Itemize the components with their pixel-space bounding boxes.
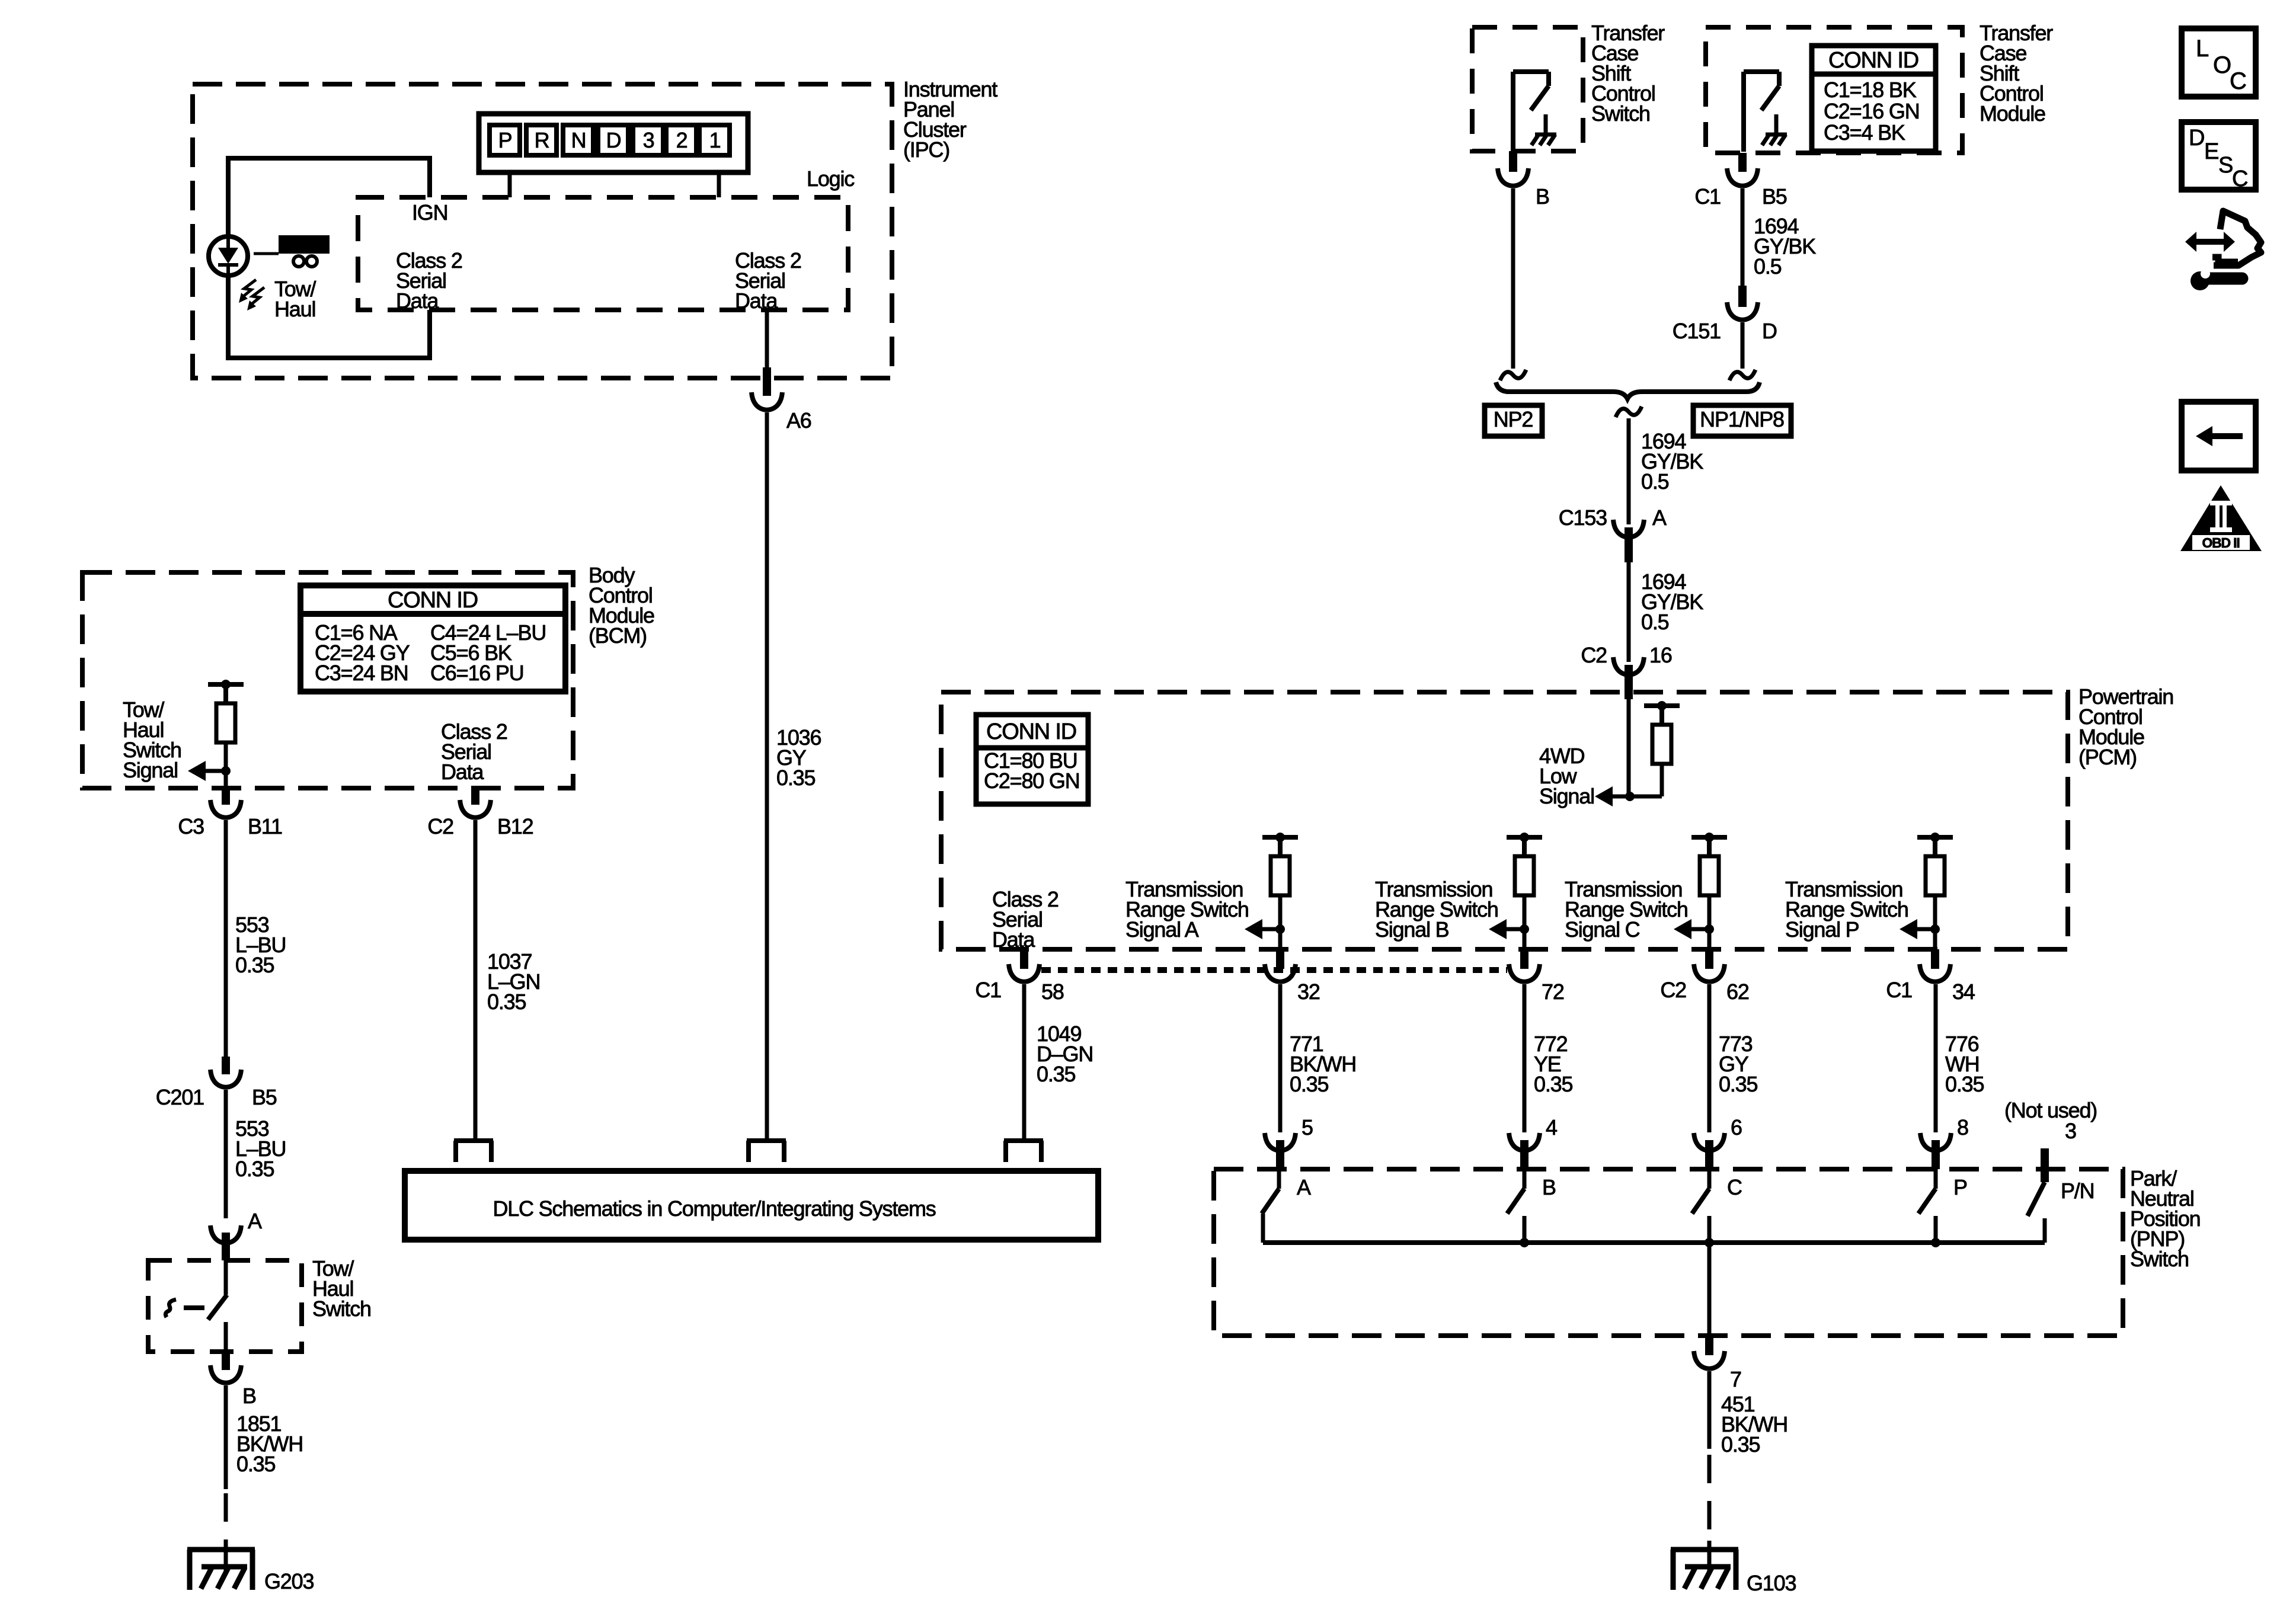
wire: LED anode loop to IGN <box>228 158 430 236</box>
svg-text:7: 7 <box>1730 1367 1741 1391</box>
connector B (TC switch) <box>1498 168 1528 186</box>
label: A (C153) <box>1652 505 1667 530</box>
icon: OBD II triangle <box>2180 485 2262 551</box>
label: C1 (34) <box>1886 978 1912 1002</box>
label: C153 <box>1559 505 1607 530</box>
wire: brace to C153 <box>1616 406 1642 524</box>
svg-text:C: C <box>1727 1175 1742 1199</box>
svg-text:0.35: 0.35 <box>1534 1072 1572 1096</box>
label: C1 (58) <box>975 978 1001 1002</box>
connector A6 <box>752 392 782 410</box>
label: Class 2 Serial Data (IPC right) <box>735 248 801 313</box>
connector PCM pin 72 <box>1509 949 1540 982</box>
wire 776 (to PNP pin 8) <box>1934 984 1938 1132</box>
svg-text:3: 3 <box>2065 1119 2076 1143</box>
label: (Not used) 3 <box>2004 1098 2097 1143</box>
wire: dashed to G203 <box>224 1493 228 1550</box>
svg-text:0.35: 0.35 <box>487 990 526 1014</box>
svg-text:O: O <box>2213 52 2231 78</box>
svg-text:OBD II: OBD II <box>2202 535 2239 550</box>
svg-text:B: B <box>1542 1175 1556 1199</box>
svg-text:4: 4 <box>1546 1115 1557 1140</box>
svg-text:0.35: 0.35 <box>235 1157 274 1181</box>
svg-text:2: 2 <box>676 128 687 152</box>
label: pin 6 <box>1731 1115 1742 1140</box>
CONN ID table (BCM) <box>300 585 565 692</box>
label: C (PNP) <box>1727 1175 1742 1199</box>
svg-text:0.35: 0.35 <box>1719 1072 1757 1096</box>
label: IGN <box>412 200 447 225</box>
wire: PNP common to pin 7 <box>1707 1243 1712 1355</box>
svg-text:C: C <box>2232 167 2247 191</box>
svg-text:B11: B11 <box>248 814 282 838</box>
bus: PNP common <box>1263 1238 2045 1247</box>
svg-text:5: 5 <box>1302 1115 1313 1140</box>
svg-text:Signal A: Signal A <box>1125 917 1199 942</box>
svg-text:CONN ID: CONN ID <box>986 719 1076 744</box>
component box: Transfer Case Shift Control Switch <box>1472 27 1583 151</box>
connector C201/B5 <box>210 1057 241 1087</box>
connector PNP pin 4 <box>1509 1133 1540 1169</box>
svg-text:Switch: Switch <box>312 1297 371 1321</box>
signal arrow: Transmission Range Switch Signal P <box>1900 919 1940 939</box>
connector C151/D <box>1727 286 1758 320</box>
connector PCM pin 34 <box>1920 949 1950 982</box>
svg-text:C153: C153 <box>1559 505 1607 530</box>
CONN ID table (PCM) <box>976 715 1088 804</box>
resistor: transmission range switch signal A pull-up <box>1262 833 1298 929</box>
label: 4WD Low Signal <box>1539 744 1594 808</box>
label: wire 1694 GY/BK 0.5 (3) <box>1641 569 1703 634</box>
connector A (tow/haul switch) <box>210 1225 241 1260</box>
svg-text:C1: C1 <box>1886 978 1912 1002</box>
switch: transfer case shift control switch <box>1513 72 1556 152</box>
PRND321 shift indicator <box>479 114 748 172</box>
svg-text:Module: Module <box>1980 101 2045 126</box>
wire: B to brace <box>1500 188 1526 380</box>
label: G203 <box>264 1569 314 1593</box>
svg-text:P/N: P/N <box>2061 1179 2094 1203</box>
label: D (C151) <box>1762 319 1777 343</box>
svg-text:Data: Data <box>735 289 778 313</box>
label: pin 34 <box>1952 980 1975 1004</box>
label: wire 776 <box>1945 1032 1984 1096</box>
connector B (tow/haul switch) <box>210 1365 241 1383</box>
svg-text:D: D <box>606 128 621 152</box>
wire: PNP pin 3 stub <box>2041 1148 2049 1182</box>
wire: PRND321 left pin <box>508 172 512 197</box>
svg-text:0.5: 0.5 <box>1754 254 1782 279</box>
svg-text:Signal C: Signal C <box>1565 917 1640 942</box>
resistor: tow/haul switch signal pull-up <box>208 680 244 771</box>
connector C153/A <box>1613 520 1644 562</box>
wire 1036 (A6 to DLC) <box>765 412 769 1141</box>
label: pin 4 <box>1546 1115 1557 1140</box>
svg-text:C2: C2 <box>1660 978 1686 1002</box>
connector PNP pin 5 <box>1265 1133 1296 1169</box>
svg-text:0.5: 0.5 <box>1641 469 1669 494</box>
svg-text:58: 58 <box>1041 980 1064 1004</box>
svg-text:8: 8 <box>1957 1115 1968 1140</box>
LED indicator: Tow/Haul lamp <box>209 236 264 311</box>
label: 16 <box>1649 643 1672 667</box>
svg-text:C1=18 BK: C1=18 BK <box>1824 78 1917 102</box>
wire 1037 (B12 to DLC) <box>474 820 478 1141</box>
svg-text:(BCM): (BCM) <box>589 623 647 648</box>
svg-text:16: 16 <box>1649 643 1672 667</box>
svg-text:A: A <box>1297 1175 1311 1199</box>
connector hat: DLC pin (1037) <box>454 1141 493 1162</box>
svg-text:Switch: Switch <box>1591 101 1650 126</box>
svg-text:Logic: Logic <box>807 167 855 191</box>
label: B (TC switch) <box>1536 184 1549 209</box>
component box: Tow/Haul Switch <box>148 1260 302 1352</box>
wire: D to brace <box>1729 322 1755 380</box>
svg-text:G203: G203 <box>264 1569 314 1593</box>
component box: Park/Neutral Position (PNP) Switch <box>1214 1169 2123 1336</box>
label: pin 58 <box>1041 980 1064 1004</box>
wire: range switch signal C to pin <box>1707 929 1712 949</box>
connector PCM pin 58 <box>1009 949 1040 982</box>
label: wire 772 <box>1534 1032 1572 1096</box>
switch: Tow/Haul Switch contacts <box>165 1260 227 1352</box>
ground G203 <box>187 1541 255 1590</box>
svg-text:(IPC): (IPC) <box>903 137 949 162</box>
resistor: 4WD low signal pull-up <box>1644 701 1680 796</box>
interconnect dotted line (PCM C1) <box>1041 967 1507 973</box>
resistor: transmission range switch signal P pull-up <box>1917 833 1953 929</box>
svg-text:C3: C3 <box>178 814 204 838</box>
svg-text:P: P <box>1953 1175 1967 1199</box>
svg-text:C2: C2 <box>427 814 453 838</box>
svg-text:C2=80 GN: C2=80 GN <box>984 769 1080 793</box>
signal arrow: Tow/Haul Switch Signal <box>188 761 231 781</box>
svg-text:32: 32 <box>1297 980 1320 1004</box>
label: pin 8 <box>1957 1115 1968 1140</box>
module box: Powertrain Control Module (PCM) <box>941 692 2068 949</box>
box: NP2 <box>1485 405 1542 436</box>
svg-text:1: 1 <box>709 128 721 152</box>
wire 1049 (58 to DLC) <box>1022 984 1027 1141</box>
svg-text:CONN ID: CONN ID <box>388 588 478 613</box>
connector C3/B11 <box>210 800 241 818</box>
signal arrow: 4WD Low Signal <box>1595 786 1613 806</box>
signal arrow: Transmission Range Switch Signal A <box>1245 919 1285 939</box>
svg-text:C201: C201 <box>156 1085 204 1109</box>
svg-text:0.35: 0.35 <box>1945 1072 1984 1096</box>
label: Tow/Haul (lamp) <box>274 277 316 321</box>
svg-text:N: N <box>571 128 586 152</box>
label: A (tow/haul switch pin) <box>248 1209 262 1233</box>
wire 1694 (B5 to C151) <box>1741 188 1745 287</box>
label: P (PNP) <box>1953 1175 1967 1199</box>
svg-text:Signal B: Signal B <box>1375 917 1449 942</box>
svg-text:NP1/NP8: NP1/NP8 <box>1700 407 1784 431</box>
svg-text:Data: Data <box>396 289 439 313</box>
label: Tow/Haul Switch <box>312 1256 371 1321</box>
label: wire 1851 BK/WH 0.35 <box>236 1411 303 1476</box>
svg-text:(PCM): (PCM) <box>2078 745 2137 769</box>
label: B5 <box>252 1085 277 1109</box>
label: Transmission Range Switch Signal A <box>1125 877 1249 942</box>
svg-text:B5: B5 <box>1762 184 1787 209</box>
svg-text:6: 6 <box>1731 1115 1742 1140</box>
svg-text:CONN ID: CONN ID <box>1828 48 1918 73</box>
component box: Transfer Case Shift Control Module <box>1706 27 1962 153</box>
label: C1 (TC module) <box>1694 184 1721 209</box>
svg-text:A6: A6 <box>786 408 811 433</box>
svg-text:Signal: Signal <box>1539 784 1594 808</box>
label: Powertrain Control Module (PCM) <box>2078 684 2173 769</box>
svg-text:C1: C1 <box>1694 184 1721 209</box>
svg-text:Signal: Signal <box>123 758 178 782</box>
connector hat: DLC pin (1036) <box>747 1141 786 1162</box>
wire: 4WD low signal node <box>1611 792 1662 801</box>
svg-text:B12: B12 <box>497 814 533 838</box>
label: C2 (PCM 16) <box>1581 643 1607 667</box>
svg-text:34: 34 <box>1952 980 1975 1004</box>
wire 553 (C201 to tow/haul switch) <box>224 1090 228 1218</box>
wire: dashed to G103 <box>1707 1455 1712 1550</box>
wire: range switch signal P to pin <box>1933 929 1937 949</box>
label: Body Control Module (BCM) <box>589 563 654 648</box>
label: Transfer Case Shift Control Module <box>1980 21 2053 126</box>
label: wire 451 BK/WH 0.35 <box>1721 1392 1787 1457</box>
label: Transfer Case Shift Control Switch <box>1591 21 1665 126</box>
label: B5 (TC module) <box>1762 184 1787 209</box>
svg-text:C6=16 PU: C6=16 PU <box>430 661 524 685</box>
svg-text:0.35: 0.35 <box>1290 1072 1328 1096</box>
svg-text:0.35: 0.35 <box>236 1452 275 1476</box>
box: NP1/NP8 <box>1693 405 1791 436</box>
label: Instrument Panel Cluster (IPC) <box>903 77 997 162</box>
wire 451 (pin 7 to ground) <box>1707 1371 1712 1449</box>
svg-text:B5: B5 <box>252 1085 277 1109</box>
label: pin 5 <box>1302 1115 1313 1140</box>
connector C2/16 <box>1613 657 1644 699</box>
label: A6 <box>786 408 811 433</box>
connector hat: DLC pin (1049) <box>1004 1141 1043 1162</box>
wire 772 (to PNP pin 4) <box>1523 984 1527 1132</box>
label: B11 <box>248 814 282 838</box>
connector PNP pin 8 <box>1920 1133 1951 1169</box>
connector C1/B5 (TC module) <box>1727 168 1758 186</box>
switch P (PNP) <box>1918 1169 1936 1243</box>
label: wire 1036 GY 0.35 <box>776 725 821 790</box>
wire: class 2 serial data to A6 pin <box>765 310 769 396</box>
icon: connector end view / wrench <box>2185 211 2261 290</box>
icon: back arrow box <box>2182 402 2256 470</box>
svg-text:(Not used): (Not used) <box>2004 1098 2097 1122</box>
label: wire 1694 GY/BK 0.5 (1) <box>1754 214 1816 279</box>
wire: LED cathode loop to logic <box>228 276 430 358</box>
svg-text:DLC Schematics in Computer/Int: DLC Schematics in Computer/Integrating S… <box>493 1196 935 1221</box>
label: wire 1049 D-GN 0.35 <box>1037 1022 1093 1086</box>
label: C201 <box>156 1085 204 1109</box>
switch C (PNP) <box>1692 1169 1709 1243</box>
svg-text:L: L <box>2196 36 2208 62</box>
svg-text:62: 62 <box>1726 980 1749 1004</box>
svg-text:D: D <box>2189 126 2204 151</box>
svg-text:E: E <box>2204 139 2218 164</box>
wire 1694 (C153 to C2) <box>1627 562 1631 662</box>
wire: TC switch pin B exit <box>1509 151 1517 172</box>
resistor: transmission range switch signal B pull-up <box>1507 833 1542 929</box>
label: pin 7 <box>1730 1367 1741 1391</box>
svg-text:Signal P: Signal P <box>1785 917 1859 942</box>
svg-text:A: A <box>1652 505 1667 530</box>
label: A (PNP) <box>1297 1175 1311 1199</box>
wire: TC module pin B5 exit <box>1738 153 1747 172</box>
signal arrow: Transmission Range Switch Signal C <box>1674 919 1714 939</box>
wire: BCM pin B12 exit <box>471 788 479 805</box>
label: C3 <box>178 814 204 838</box>
svg-text:G103: G103 <box>1747 1571 1796 1595</box>
wire 1851 (B to ground) <box>224 1385 228 1489</box>
label: wire 553 L-BU 0.35 <box>235 913 286 977</box>
brace: splice options <box>1496 382 1760 399</box>
svg-text:C1: C1 <box>975 978 1001 1002</box>
label: Class 2 Serial Data (IPC left) <box>396 248 462 313</box>
icon: LOC box <box>2182 28 2256 97</box>
wire 553 (B11 to C201) <box>224 820 228 1059</box>
label: Tow/Haul Switch Signal <box>123 697 181 782</box>
svg-text:IGN: IGN <box>412 200 447 225</box>
label: P/N (PNP) <box>2061 1179 2094 1203</box>
label: C151 <box>1673 319 1721 343</box>
svg-text:C3=24 BN: C3=24 BN <box>315 661 408 685</box>
CONN ID table (TC module) <box>1812 46 1936 151</box>
svg-text:3: 3 <box>643 128 654 152</box>
ground G103 <box>1671 1541 1738 1590</box>
switch A (PNP) <box>1262 1169 1279 1243</box>
svg-text:B: B <box>242 1384 256 1408</box>
switch B (PNP) <box>1507 1169 1524 1243</box>
connector PNP pin 6 <box>1694 1133 1725 1169</box>
svg-text:R: R <box>535 128 549 152</box>
logic box (dashed) <box>358 197 848 310</box>
label: wire 1037 L-GN 0.35 <box>487 949 540 1014</box>
label: B12 <box>497 814 533 838</box>
svg-text:D: D <box>1762 319 1777 343</box>
label: wire 771 <box>1290 1032 1356 1096</box>
svg-text:Data: Data <box>992 927 1035 952</box>
svg-text:0.35: 0.35 <box>1037 1062 1075 1086</box>
svg-text:0.35: 0.35 <box>235 953 274 977</box>
wire: range switch signal B to pin <box>1523 929 1527 949</box>
trailer icon <box>254 235 330 267</box>
connector PNP pin 7 <box>1694 1351 1725 1369</box>
label: Park/Neutral Position (PNP) Switch <box>2130 1166 2200 1271</box>
wire 773 (to PNP pin 6) <box>1707 984 1712 1132</box>
label: B (PNP) <box>1542 1175 1556 1199</box>
box: DLC Schematics in Computer/Integrating Systems <box>405 1171 1098 1240</box>
wire: 1694 into PCM <box>1627 699 1631 796</box>
svg-text:NP2: NP2 <box>1494 407 1533 431</box>
svg-text:C151: C151 <box>1673 319 1721 343</box>
svg-text:C: C <box>2230 68 2246 94</box>
icon: DESC box <box>2182 122 2256 191</box>
svg-text:0.35: 0.35 <box>776 766 815 790</box>
switch: transfer case shift control module internal <box>1744 72 1787 152</box>
wire 771 (to PNP pin 5) <box>1278 984 1283 1132</box>
module box: Instrument Panel Cluster (IPC) <box>193 84 892 378</box>
wire: tow/haul switch pin B exit <box>222 1352 230 1370</box>
wire: PRND321 right pin <box>717 172 721 197</box>
svg-text:72: 72 <box>1542 980 1564 1004</box>
svg-text:A: A <box>248 1209 262 1233</box>
switch P/N (PNP) <box>2028 1182 2045 1243</box>
label: Transmission Range Switch Signal B <box>1375 877 1498 942</box>
label: Logic <box>807 167 855 191</box>
svg-text:C2: C2 <box>1581 643 1607 667</box>
svg-text:B: B <box>1536 184 1549 209</box>
label: pin 62 <box>1726 980 1749 1004</box>
svg-text:Data: Data <box>441 760 484 784</box>
svg-text:0.5: 0.5 <box>1641 610 1669 634</box>
connector C2/B12 <box>460 800 491 818</box>
signal arrow: Transmission Range Switch Signal B <box>1489 919 1529 939</box>
label: Transmission Range Switch Signal C <box>1565 877 1688 942</box>
connector PCM pin 62 <box>1694 949 1725 982</box>
label: pin 72 <box>1542 980 1564 1004</box>
label: Class 2 Serial Data (PCM) <box>992 887 1059 952</box>
svg-text:C2=16 GN: C2=16 GN <box>1824 99 1920 123</box>
svg-text:Haul: Haul <box>274 297 315 321</box>
label: C2 (BCM) <box>427 814 453 838</box>
label: pin 32 <box>1297 980 1320 1004</box>
svg-text:S: S <box>2218 153 2233 178</box>
module box: Body Control Module (BCM) <box>82 572 573 788</box>
label: G103 <box>1747 1571 1796 1595</box>
svg-text:0.35: 0.35 <box>1721 1432 1760 1457</box>
label: wire 1694 GY/BK 0.5 (2) <box>1641 429 1703 494</box>
label: B (tow/haul) <box>242 1384 256 1408</box>
connector PCM pin 32 <box>1265 949 1296 982</box>
label: wire 773 <box>1719 1032 1757 1096</box>
label: Transmission Range Switch Signal P <box>1785 877 1908 942</box>
label: wire 553 L-BU 0.35 (2) <box>235 1116 286 1181</box>
resistor: transmission range switch signal C pull-up <box>1691 833 1727 929</box>
label: C2 (62) <box>1660 978 1686 1002</box>
svg-text:P: P <box>498 128 512 152</box>
wire: range switch signal A to pin <box>1278 929 1283 949</box>
wire: BCM pin B11 exit <box>224 771 228 805</box>
svg-text:C3=4 BK: C3=4 BK <box>1824 120 1905 145</box>
label: Class 2 Serial Data (BCM) <box>441 719 507 784</box>
svg-text:Switch: Switch <box>2130 1247 2189 1271</box>
